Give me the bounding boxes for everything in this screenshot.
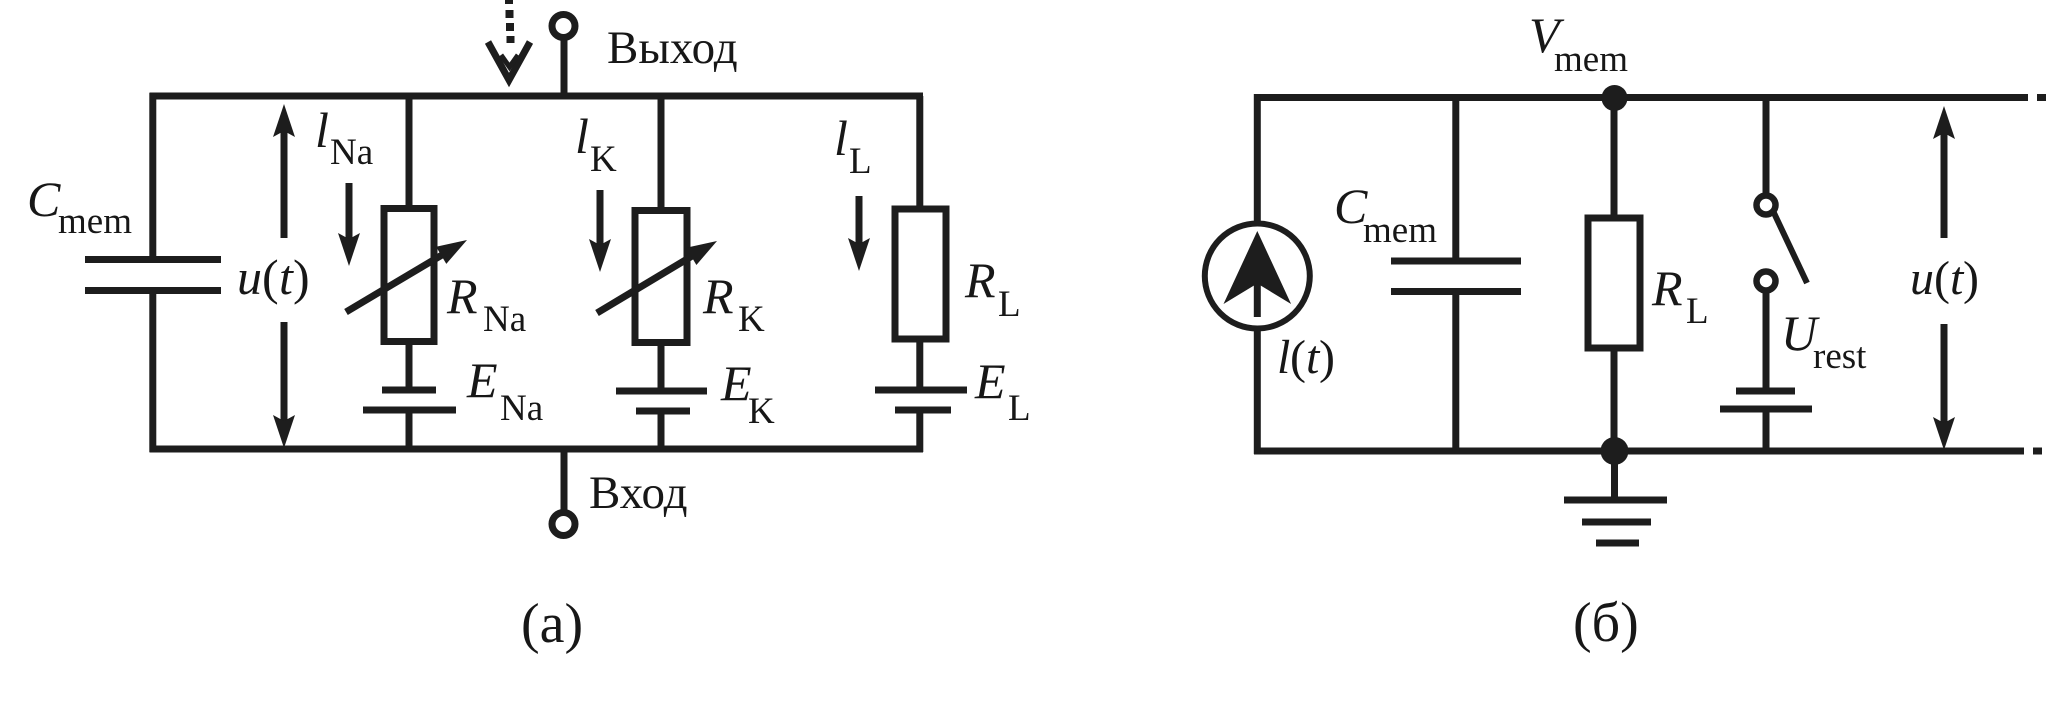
arrow u(t) up head (b) xyxy=(1933,106,1955,139)
svg-text:K: K xyxy=(590,139,617,180)
svg-text:Na: Na xyxy=(330,132,373,173)
wire E_K to bottom rail xyxy=(658,411,665,449)
arrow u(t) down head (a) xyxy=(273,415,295,448)
node V_mem dot xyxy=(1602,85,1628,111)
wire top rail end dash (b) xyxy=(2037,94,2046,101)
wire u(t) lower arrow shaft (a) xyxy=(281,322,288,423)
ground symbol bars xyxy=(1564,500,1667,543)
arrow current I_K xyxy=(597,190,604,247)
svg-text:L: L xyxy=(1008,388,1031,429)
switch lower contact circle xyxy=(1757,272,1776,291)
svg-text:(б): (б) xyxy=(1573,592,1639,654)
svg-text:R: R xyxy=(702,268,734,324)
svg-text:u: u xyxy=(1910,252,1934,305)
switch lever xyxy=(1774,213,1807,283)
wire R_L branch top (a) xyxy=(916,96,923,210)
wire R_L branch bottom (b) xyxy=(1611,348,1618,451)
terminal circle Vhod xyxy=(552,513,575,536)
wire E_L to bottom rail xyxy=(916,410,923,452)
svg-text:E: E xyxy=(974,353,1006,409)
variable resistor arrow through R_K xyxy=(597,251,700,313)
resistor R_L body (b) xyxy=(1588,218,1640,348)
terminal stub Vyhod (a) xyxy=(561,39,568,96)
resistor R_L body (a) xyxy=(895,209,946,339)
battery E_Na plates xyxy=(363,390,456,410)
wire left branch lower (b) xyxy=(1254,328,1261,454)
svg-text:l: l xyxy=(315,102,329,158)
wire bottom rail circuit a xyxy=(150,446,924,453)
current source arrow dart xyxy=(1224,231,1292,304)
resistor R_K body xyxy=(635,211,687,343)
svg-text:rest: rest xyxy=(1813,336,1867,377)
svg-text:R: R xyxy=(964,252,996,308)
terminal stub Vhod (a) xyxy=(561,449,568,513)
svg-text:l: l xyxy=(1277,331,1290,384)
wire capacitor branch upper (b) xyxy=(1452,98,1459,261)
svg-text:l: l xyxy=(575,108,589,164)
svg-text:(: ( xyxy=(1290,331,1306,384)
resistor R_Na body xyxy=(384,209,434,342)
svg-text:): ) xyxy=(293,249,310,305)
svg-text:Вход: Вход xyxy=(589,467,688,519)
svg-text:(: ( xyxy=(1934,252,1950,305)
terminal circle Vyhod xyxy=(552,15,575,38)
svg-text:C: C xyxy=(27,171,61,227)
wire R_Na to battery E_Na xyxy=(406,341,413,390)
svg-text:(: ( xyxy=(262,249,279,305)
wire R_L branch top (b) xyxy=(1611,98,1618,220)
wire top rail circuit a xyxy=(150,93,924,100)
dashed stimulus arrow dots xyxy=(505,0,515,43)
wire u(t) upper shaft (b) xyxy=(1941,131,1948,238)
node bottom junction dot (b) xyxy=(1601,437,1629,465)
svg-text:u: u xyxy=(237,249,262,305)
wire R_K branch top (a) xyxy=(658,96,665,211)
svg-text:Na: Na xyxy=(483,299,526,340)
wire capacitor branch lower (b) xyxy=(1452,292,1459,451)
capacitor C_mem plates (b) xyxy=(1391,261,1521,292)
svg-text:K: K xyxy=(748,391,775,432)
svg-text:L: L xyxy=(998,284,1021,325)
wire bottom rail circuit b xyxy=(1254,448,2024,455)
battery E_K plates xyxy=(616,391,707,411)
wire switch to battery U_rest xyxy=(1763,290,1770,391)
svg-text:Выход: Выход xyxy=(607,22,738,74)
svg-text:L: L xyxy=(849,141,872,182)
svg-text:R: R xyxy=(446,268,478,324)
variable resistor arrow through R_Na xyxy=(346,250,450,312)
arrow current I_Na xyxy=(346,183,353,241)
svg-text:): ) xyxy=(1963,252,1979,305)
wire R_Na branch top (a) xyxy=(406,96,413,209)
svg-text:mem: mem xyxy=(1363,210,1437,251)
wire switch branch top (b) xyxy=(1763,98,1770,197)
svg-text:(а): (а) xyxy=(521,593,583,655)
battery E_L plates xyxy=(875,390,967,410)
wire left branch lower segment (a) xyxy=(149,291,156,452)
svg-text:K: K xyxy=(738,299,765,340)
svg-text:Na: Na xyxy=(500,388,543,429)
wire u(t) upper arrow shaft (a) xyxy=(281,129,288,238)
svg-text:t: t xyxy=(279,249,294,305)
wire R_L to battery E_L xyxy=(916,339,923,390)
switch upper contact circle xyxy=(1757,196,1776,215)
current source I(t) circle xyxy=(1205,224,1310,329)
wire E_Na to bottom rail xyxy=(406,410,413,449)
svg-text:mem: mem xyxy=(58,201,132,242)
battery U_rest plates xyxy=(1720,391,1812,409)
wire R_K to battery E_K xyxy=(658,342,665,391)
current source arrow tail xyxy=(1254,283,1261,317)
capacitor C_mem plates (a) xyxy=(85,260,221,291)
arrow u(t) down head (b) xyxy=(1933,417,1955,450)
wire left branch upper (b) xyxy=(1254,94,1261,226)
svg-text:l: l xyxy=(834,110,848,166)
wire U_rest to bottom rail xyxy=(1763,409,1770,451)
wire ground stub xyxy=(1611,451,1618,499)
wire top rail circuit b xyxy=(1254,94,2028,101)
svg-text:L: L xyxy=(1686,291,1709,332)
arrow current I_L xyxy=(856,196,863,246)
arrow u(t) up head (a) xyxy=(273,104,295,137)
wire bottom rail end dash (b) xyxy=(2033,448,2042,455)
svg-text:): ) xyxy=(1319,331,1335,384)
svg-text:E: E xyxy=(720,355,752,411)
svg-text:E: E xyxy=(466,352,498,408)
wire u(t) lower shaft (b) xyxy=(1941,324,1948,424)
dashed stimulus arrow chevron head xyxy=(488,42,530,80)
svg-text:R: R xyxy=(1651,260,1683,316)
wire left branch upper segment (a) xyxy=(149,93,156,258)
svg-text:mem: mem xyxy=(1554,39,1628,80)
